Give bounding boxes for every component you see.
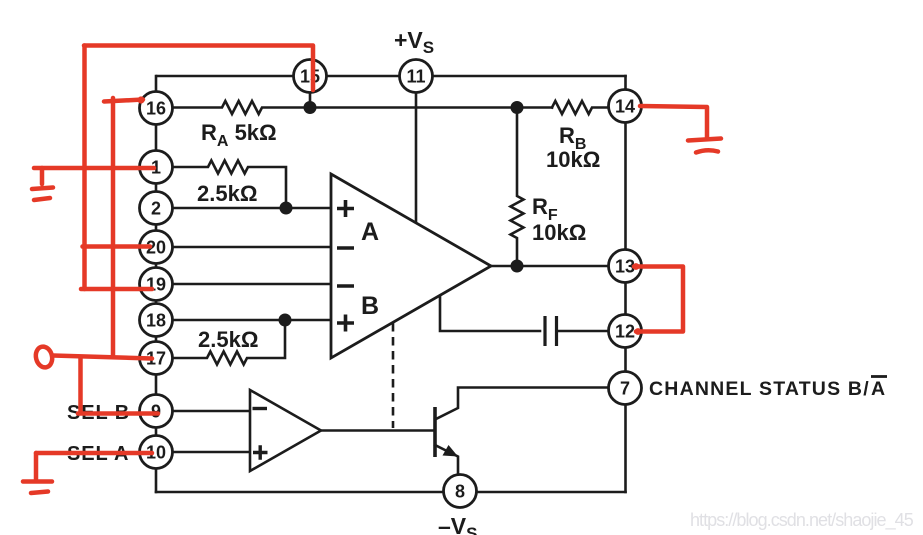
wire bottom edge of IC box [156,491,626,494]
comparator plus input [253,445,268,460]
red wire to pin20 [83,244,151,249]
junction dot 2.5k pin18 [279,314,292,327]
transistor Q2 emitter arrowhead [443,445,459,457]
junction dot RF top [511,101,524,114]
svg-text:14: 14 [615,97,635,117]
svg-text:16: 16 [146,99,166,119]
wire pin19 to op-amp -B [172,283,331,286]
svg-text:7: 7 [620,379,630,399]
pin 18 [140,304,173,337]
op-amp plus input A [337,200,354,217]
red stub down from SEL A wire [34,453,39,479]
overline on A [871,375,887,378]
svg-text:2: 2 [151,199,161,219]
resistor RF 10k vertical [511,108,524,267]
red vertical bus 2 [111,98,116,356]
wire pin20 to op-amp -A [172,246,331,249]
svg-text:–VS: –VS [438,513,477,535]
resistor RB 10k zigzag in rail [552,101,609,114]
svg-text:+VS: +VS [394,27,434,57]
pin 20 [140,231,173,264]
wire op-amp output to pin13 [491,265,609,268]
dashed select control line [392,323,395,428]
red blob at pin16 stub [137,96,144,103]
red wire to pin19 [81,287,152,292]
wire pin15 stub to RA-RB rail [309,92,312,108]
wire capacitor to pin12 [557,330,609,333]
transistor Q1 emitter to pin8 [435,445,458,475]
red wire pin14 to ground [640,106,707,137]
red ground upper-left [32,168,53,200]
wire pin10 to comparator plus [172,451,250,454]
capacitor C1 plates [545,316,557,346]
red vertical bus 1 [82,46,87,290]
junction dot op-amp output [511,260,524,273]
svg-text:18: 18 [146,311,166,331]
red blob at pin12 [635,328,642,335]
pin 19 [140,268,173,301]
red blob at pin13 [633,263,640,270]
resistor 2.5k pin1 branch [172,161,286,209]
op-amp minus input B [337,284,354,288]
pin 12 [609,315,642,348]
svg-text:RA 5kΩ: RA 5kΩ [201,120,277,150]
wire pin7 to transistor collector [435,388,609,420]
red ground lower-left [23,482,52,494]
svg-text:19: 19 [146,275,166,295]
svg-text:A: A [361,218,379,246]
svg-text:https://blog.csdn.net/shaojie_: https://blog.csdn.net/shaojie_45 [690,510,914,531]
wire pin18 to op-amp +B [172,319,331,322]
red wire top loop to pin15 [84,46,313,91]
wire right edge pin chain [624,76,627,492]
pin 14 [609,90,642,123]
svg-text:11: 11 [406,67,425,87]
pin 2 [140,192,173,225]
red wire to pin17 [53,356,152,359]
red phi terminal ellipse [34,345,55,369]
red vertical bus 3 [78,357,83,413]
op-amp plus input B [337,315,354,332]
comparator minus input [253,407,268,410]
op-amp minus input A [337,246,354,250]
pin 8 [444,475,477,508]
pin 9 [140,395,173,428]
red jumper pin13 to pin12 [634,267,683,332]
svg-text:12: 12 [615,322,635,342]
pin 15 [294,60,327,93]
svg-text:2.5kΩ: 2.5kΩ [198,327,258,352]
pin 7 [609,372,642,405]
svg-text:A: A [871,378,885,400]
wire feedback from hypotenuse down to capacitor [440,297,540,331]
svg-text:CHANNEL STATUS B/: CHANNEL STATUS B/ [649,378,870,400]
red wire to pin10 [36,451,152,456]
wire +Vs rail from pin11 down to op-amp [415,93,418,222]
pin circles [140,60,642,508]
svg-text:B: B [361,292,379,320]
red wire to pin1 [34,166,154,171]
svg-text:2.5kΩ: 2.5kΩ [197,181,257,206]
wire pin9 to comparator minus [172,410,250,413]
red stub to pin16 [104,100,143,102]
op-amp U1 mux amplifier [331,174,491,358]
wire pin2 to op-amp +A [172,207,331,210]
pin 1 [140,151,173,184]
pin 10 [140,436,173,469]
wire top edge of IC box [157,75,626,78]
red ground right [688,139,721,153]
red annotation wires [23,46,721,494]
pin 13 [609,250,642,283]
svg-text:8: 8 [455,482,465,502]
wire comparator output to transistor base [321,429,434,432]
svg-text:15: 15 [300,67,320,87]
pin 17 [140,342,173,375]
junction dot 2.5k pin2 [280,202,293,215]
pin 16 [140,92,173,125]
resistor 2.5k pin17 branch [172,320,285,365]
svg-text:10kΩ: 10kΩ [532,220,586,245]
junction dot at pin15 rail [304,101,317,114]
pin 11 [400,60,433,93]
comparator U2 [250,390,321,471]
wire left edge pin chain [155,76,158,492]
red wire to pin9 [78,411,158,416]
resistor RA 5k zigzag in rail [172,101,552,114]
svg-text:10kΩ: 10kΩ [546,147,600,172]
transistor Q2 base bar [433,407,437,457]
